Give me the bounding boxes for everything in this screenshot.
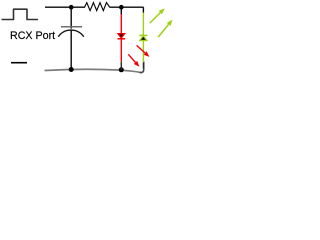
node D (bottom, LED junction) <box>119 67 124 72</box>
node A (top, capacitor junction) <box>69 5 74 10</box>
resistor R1 <box>85 3 110 11</box>
emission arrow (red) 1 <box>128 54 139 67</box>
emission arrow (green) B <box>158 20 173 37</box>
flat (ground) waveform dash <box>11 62 27 64</box>
LED D1 (red, emitter) <box>118 7 126 70</box>
emission arrow (red) 2 <box>137 45 150 57</box>
wire: bottom rail <box>45 69 143 73</box>
pulse waveform symbol (RCX signal) <box>2 9 39 19</box>
svg-text:RCX Port: RCX Port <box>10 30 55 42</box>
node C (bottom, capacitor junction) <box>69 67 74 72</box>
emission arrow (green) A <box>150 8 165 23</box>
node B (top, LED junction) <box>119 5 124 10</box>
capacitor C1 <box>58 7 84 69</box>
LED D2 (green, detector) <box>139 7 147 68</box>
background <box>0 0 175 75</box>
wire: top rail left segment <box>45 6 85 8</box>
wire: top rail right segment <box>110 6 144 8</box>
